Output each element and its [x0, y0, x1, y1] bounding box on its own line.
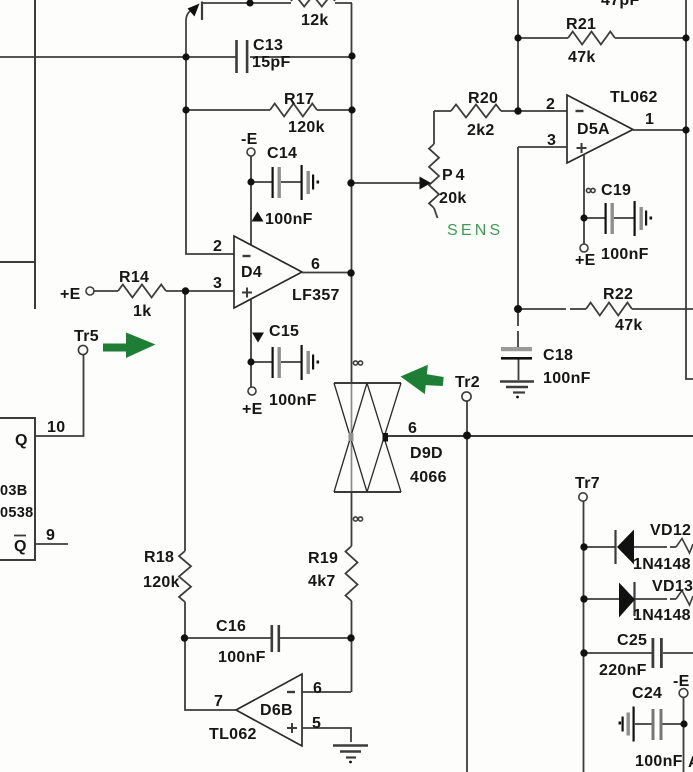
svg-text:D9D: D9D	[410, 445, 443, 462]
svg-text:C16: C16	[216, 618, 246, 635]
svg-text:47k: 47k	[568, 49, 596, 66]
svg-text:VD12: VD12	[650, 522, 691, 539]
svg-text:0538: 0538	[0, 505, 33, 521]
svg-text:-E: -E	[673, 673, 690, 690]
svg-text:C19: C19	[601, 182, 631, 199]
svg-text:D4: D4	[241, 264, 262, 281]
svg-text:100nF: 100nF	[543, 370, 591, 387]
svg-text:+E: +E	[242, 401, 263, 418]
svg-text:C25: C25	[617, 632, 647, 649]
svg-text:6: 6	[311, 256, 320, 273]
svg-text:SENS: SENS	[447, 222, 503, 239]
svg-text:Q: Q	[15, 432, 28, 449]
svg-text:1k: 1k	[133, 303, 151, 320]
svg-text:2: 2	[546, 96, 555, 113]
svg-text:Tr7: Tr7	[575, 475, 600, 492]
svg-text:120k: 120k	[288, 119, 325, 136]
svg-text:C24: C24	[632, 685, 662, 702]
svg-text:20k: 20k	[439, 190, 467, 207]
svg-text:Q: Q	[14, 538, 27, 555]
svg-text:100nF: 100nF	[635, 753, 683, 770]
svg-text:6: 6	[408, 420, 417, 437]
svg-text:7: 7	[214, 693, 223, 710]
svg-text:Tr5: Tr5	[74, 328, 99, 345]
svg-text:R19: R19	[308, 550, 338, 567]
svg-text:TL062: TL062	[209, 726, 257, 743]
svg-text:120k: 120k	[143, 574, 180, 591]
svg-text:R20: R20	[468, 90, 498, 107]
svg-text:C13: C13	[253, 37, 283, 54]
svg-text:220nF: 220nF	[599, 662, 647, 679]
svg-text:4k7: 4k7	[308, 573, 336, 590]
svg-text:R14: R14	[119, 269, 149, 286]
svg-text:A: A	[688, 754, 693, 771]
svg-text:03B: 03B	[0, 483, 28, 499]
svg-text:-E: -E	[241, 131, 258, 148]
svg-text:C14: C14	[267, 145, 297, 162]
svg-text:1: 1	[645, 111, 654, 128]
svg-text:3: 3	[213, 275, 222, 292]
svg-text:VD13: VD13	[652, 578, 693, 595]
svg-text:+E: +E	[575, 252, 596, 269]
svg-text:100nF: 100nF	[218, 649, 266, 666]
svg-text:3: 3	[547, 132, 556, 149]
svg-text:+E: +E	[60, 286, 81, 303]
svg-text:TL062: TL062	[610, 89, 658, 106]
svg-text:100nF: 100nF	[601, 246, 649, 263]
svg-text:15pF: 15pF	[252, 54, 291, 71]
svg-text:100nF: 100nF	[269, 392, 317, 409]
svg-text:2: 2	[213, 238, 222, 255]
svg-text:R18: R18	[144, 549, 174, 566]
svg-text:1N4148: 1N4148	[633, 556, 691, 573]
svg-text:10: 10	[47, 419, 65, 436]
svg-text:6: 6	[313, 680, 322, 697]
svg-text:R17: R17	[284, 91, 314, 108]
svg-text:LF357: LF357	[292, 287, 340, 304]
svg-text:D6B: D6B	[260, 702, 293, 719]
svg-text:C15: C15	[269, 323, 299, 340]
svg-text:100nF: 100nF	[265, 211, 313, 228]
svg-text:C18: C18	[543, 347, 573, 364]
svg-text:Tr2: Tr2	[455, 374, 480, 391]
svg-text:2k2: 2k2	[467, 122, 495, 139]
svg-text:47k: 47k	[615, 317, 643, 334]
svg-text:R22: R22	[603, 286, 633, 303]
svg-text:47pF: 47pF	[601, 0, 640, 9]
svg-text:D5A: D5A	[577, 121, 610, 138]
svg-text:5: 5	[312, 715, 321, 732]
svg-text:P4: P4	[442, 167, 468, 184]
svg-text:4066: 4066	[410, 469, 447, 486]
svg-text:9: 9	[46, 527, 55, 544]
svg-text:12k: 12k	[301, 12, 329, 29]
svg-text:R21: R21	[566, 16, 596, 33]
svg-text:1N4148: 1N4148	[633, 607, 691, 624]
